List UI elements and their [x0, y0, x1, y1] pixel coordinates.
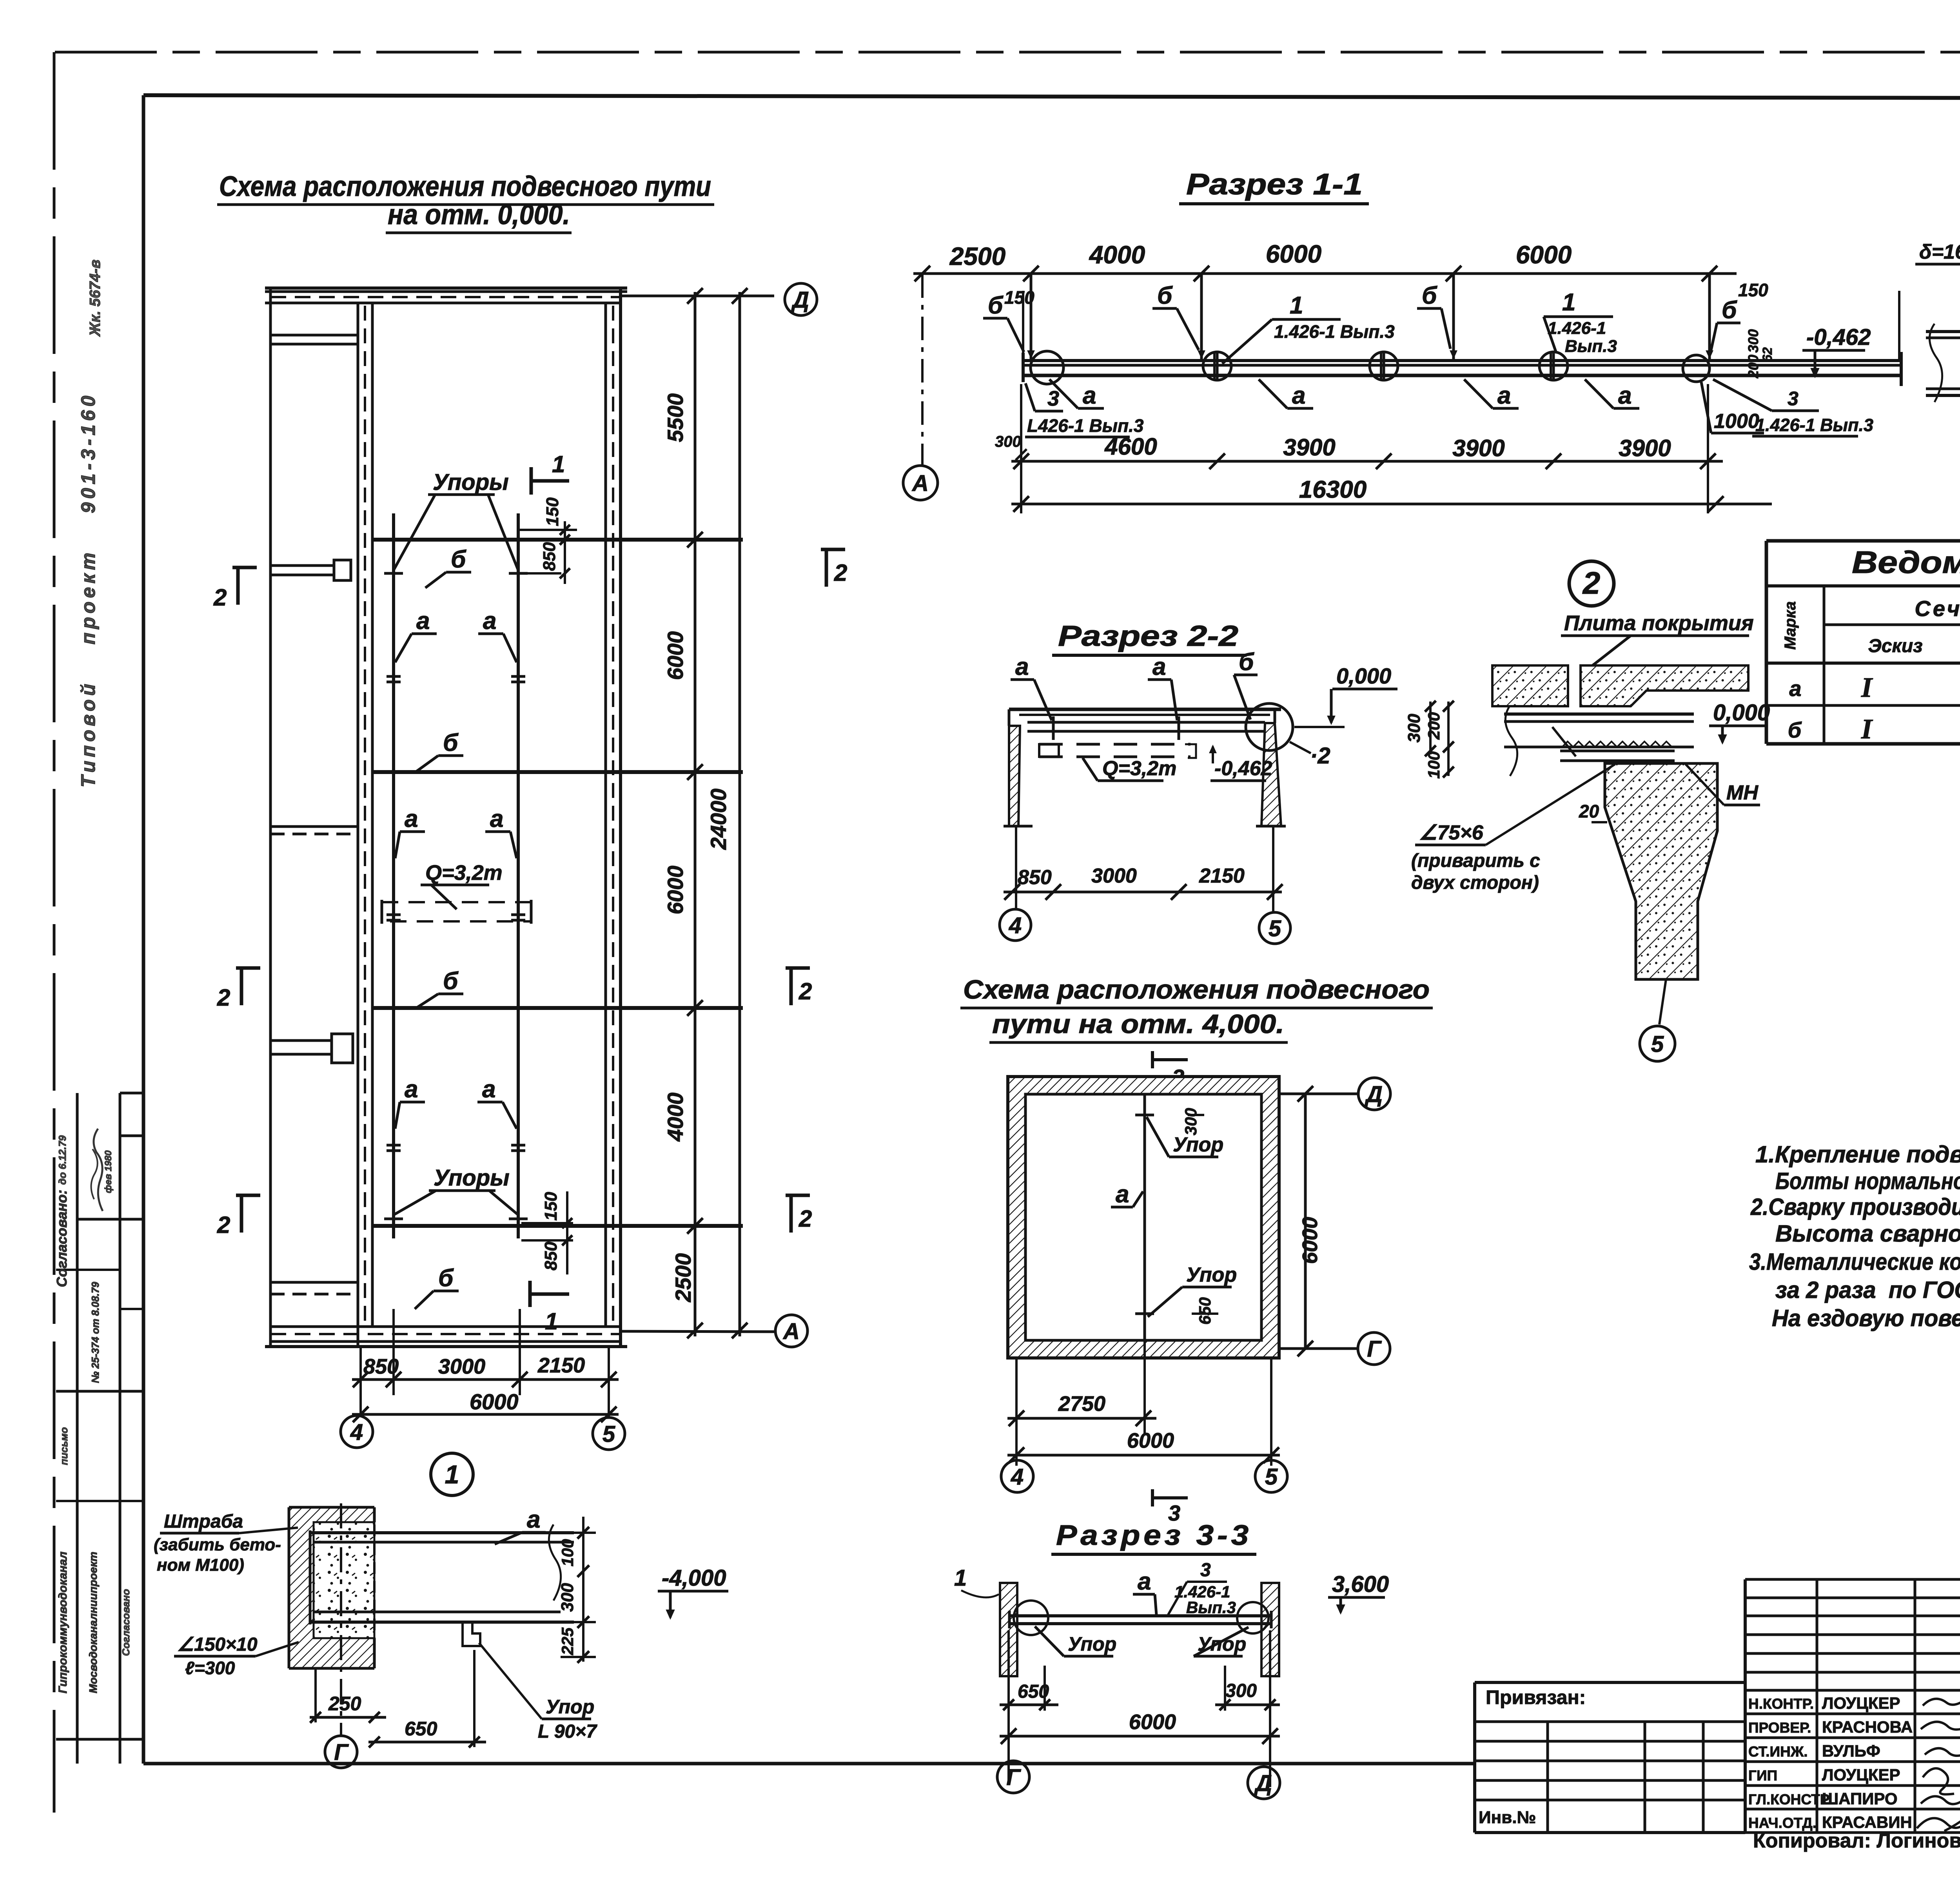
svg-text:Г: Г: [1367, 1336, 1382, 1362]
svg-text:1: 1: [545, 1308, 558, 1334]
svg-text:а: а: [1292, 382, 1305, 409]
svg-text:б: б: [1239, 649, 1254, 676]
svg-text:а: а: [1083, 382, 1096, 409]
svg-text:Н.КОНТР.: Н.КОНТР.: [1748, 1696, 1814, 1712]
svg-text:Копировал: Логинова: Копировал: Логинова: [1753, 1829, 1960, 1852]
svg-text:100: 100: [1425, 751, 1443, 779]
svg-text:2750: 2750: [1058, 1392, 1105, 1416]
svg-text:850: 850: [363, 1355, 399, 1378]
svg-text:Согласовано:: Согласовано:: [54, 1190, 70, 1287]
svg-text:Д: Д: [1364, 1082, 1383, 1107]
svg-text:-0,462: -0,462: [1214, 757, 1272, 780]
svg-text:На ездовую поверхность краска: На ездовую поверхность краска не наносит…: [1772, 1305, 1960, 1331]
svg-text:а: а: [1618, 382, 1632, 409]
svg-text:4000: 4000: [1089, 241, 1145, 269]
svg-text:1.426-1 Вып.3: 1.426-1 Вып.3: [1755, 415, 1873, 435]
svg-text:5: 5: [1265, 1464, 1278, 1490]
svg-text:1: 1: [1290, 292, 1303, 319]
svg-text:200: 200: [1745, 355, 1761, 379]
svg-text:∠150×10: ∠150×10: [177, 1634, 258, 1655]
svg-text:СТ.ИНЖ.: СТ.ИНЖ.: [1748, 1744, 1808, 1760]
svg-text:∠75×6: ∠75×6: [1419, 821, 1484, 844]
svg-text:письмо: письмо: [58, 1427, 70, 1465]
svg-text:150: 150: [541, 1192, 561, 1221]
svg-text:а: а: [416, 607, 430, 634]
svg-text:А: А: [911, 471, 929, 496]
svg-text:150: 150: [1004, 287, 1034, 308]
svg-text:Д: Д: [791, 287, 809, 313]
svg-text:4: 4: [1011, 1464, 1024, 1490]
svg-text:2: 2: [799, 978, 812, 1004]
svg-text:100: 100: [558, 1539, 577, 1566]
svg-text:6000: 6000: [1266, 240, 1321, 268]
svg-text:Сечение: Сечение: [1915, 596, 1960, 621]
svg-text:а: а: [1015, 653, 1029, 680]
svg-text:до 6.12.79: до 6.12.79: [56, 1135, 68, 1185]
svg-text:1: 1: [445, 1460, 459, 1489]
svg-text:650: 650: [1196, 1297, 1214, 1325]
svg-text:300: 300: [558, 1583, 577, 1612]
svg-text:б: б: [443, 729, 459, 756]
svg-text:I: I: [1861, 672, 1873, 703]
svg-text:Мосводоканалниипроект: Мосводоканалниипроект: [87, 1552, 99, 1693]
svg-text:2: 2: [799, 1206, 812, 1232]
svg-text:Упор: Упор: [1068, 1633, 1116, 1655]
svg-text:300: 300: [1745, 329, 1761, 353]
svg-text:ГЛ.КОНСТР: ГЛ.КОНСТР: [1748, 1791, 1829, 1807]
svg-text:6000: 6000: [663, 631, 688, 680]
svg-text:650: 650: [1018, 1681, 1049, 1702]
svg-text:1.426-1: 1.426-1: [1548, 319, 1606, 338]
svg-text:Q=3,2т: Q=3,2т: [1102, 757, 1176, 780]
svg-text:3: 3: [1047, 387, 1059, 410]
svg-text:а: а: [483, 607, 496, 634]
svg-text:Разрез 1-1: Разрез 1-1: [1186, 168, 1363, 201]
svg-text:а: а: [1116, 1181, 1129, 1208]
svg-text:а: а: [1497, 382, 1511, 409]
svg-text:6000: 6000: [1127, 1429, 1174, 1452]
svg-text:2: 2: [217, 1212, 230, 1238]
svg-text:300: 300: [1225, 1680, 1257, 1701]
svg-text:б: б: [1788, 718, 1802, 742]
svg-text:2500: 2500: [949, 242, 1005, 270]
svg-text:24000: 24000: [706, 789, 731, 850]
svg-text:I: I: [1861, 713, 1873, 745]
svg-text:фев 1980: фев 1980: [103, 1150, 114, 1193]
svg-text:1000: 1000: [1714, 410, 1759, 433]
svg-text:МН: МН: [1726, 781, 1759, 804]
svg-text:·2: ·2: [1310, 743, 1330, 769]
svg-text:3,600: 3,600: [1332, 1572, 1389, 1597]
svg-text:3000: 3000: [438, 1355, 485, 1378]
svg-text:6000: 6000: [1129, 1710, 1176, 1734]
svg-text:Разрез 2-2: Разрез 2-2: [1058, 620, 1238, 652]
svg-text:2.Сварку производить электрода: 2.Сварку производить электродами типа Э-…: [1750, 1194, 1960, 1220]
svg-text:а: а: [1138, 1568, 1151, 1595]
svg-text:на отм. 0,000.: на отм. 0,000.: [388, 199, 570, 230]
svg-text:А: А: [782, 1319, 800, 1344]
svg-text:2150: 2150: [1199, 865, 1245, 887]
svg-text:а: а: [1152, 653, 1166, 680]
svg-text:300: 300: [995, 433, 1021, 450]
svg-text:Штраба: Штраба: [164, 1511, 243, 1532]
svg-text:Вып.3: Вып.3: [1565, 337, 1617, 356]
svg-text:Вып.3: Вып.3: [1186, 1598, 1236, 1617]
svg-text:Инв.№: Инв.№: [1479, 1808, 1536, 1827]
svg-text:(забить бето-: (забить бето-: [154, 1535, 281, 1554]
svg-text:ном М100): ном М100): [157, 1555, 244, 1575]
svg-text:-4,000: -4,000: [662, 1565, 726, 1591]
svg-text:Ведомость элементов.: Ведомость элементов.: [1852, 545, 1960, 580]
svg-text:16300: 16300: [1299, 476, 1367, 503]
svg-text:Типовой проект 901-3-160: Типовой проект 901-3-160: [77, 392, 99, 788]
svg-text:6000: 6000: [1516, 241, 1572, 269]
svg-text:НАЧ.ОТД.: НАЧ.ОТД.: [1748, 1815, 1817, 1831]
svg-text:Упор: Упор: [1186, 1264, 1237, 1286]
svg-text:Болты нормальной точности М16: Болты нормальной точности М16 ГОСТ 7798-…: [1775, 1168, 1960, 1194]
svg-text:Упоры: Упоры: [434, 1165, 510, 1191]
svg-text:-0,462: -0,462: [1806, 324, 1871, 350]
svg-text:ВУЛЬФ: ВУЛЬФ: [1822, 1742, 1880, 1760]
svg-text:6000: 6000: [1298, 1217, 1322, 1264]
svg-text:Марка: Марка: [1782, 601, 1799, 650]
svg-text:Разрез 3-3: Разрез 3-3: [1056, 1520, 1252, 1551]
svg-text:1.Крепление подвесных путей к: 1.Крепление подвесных путей к балкам-бол…: [1755, 1141, 1960, 1167]
svg-text:850: 850: [541, 1242, 561, 1271]
svg-text:20: 20: [1579, 801, 1599, 821]
svg-text:3900: 3900: [1619, 435, 1671, 461]
svg-text:4: 4: [1009, 913, 1022, 938]
svg-text:б: б: [988, 292, 1004, 319]
svg-text:3900: 3900: [1452, 435, 1504, 461]
svg-text:150: 150: [543, 497, 562, 526]
svg-text:а: а: [527, 1506, 540, 1533]
svg-text:б: б: [1722, 297, 1737, 324]
svg-text:Гипрокоммунводоканал: Гипрокоммунводоканал: [56, 1552, 69, 1693]
svg-text:62: 62: [1760, 347, 1775, 362]
svg-text:225: 225: [558, 1627, 577, 1655]
svg-text:ПРОВЕР.: ПРОВЕР.: [1748, 1720, 1811, 1736]
svg-text:Схема расположения подвесного: Схема расположения подвесного пути: [219, 171, 711, 202]
svg-text:2500: 2500: [671, 1253, 695, 1303]
svg-text:КРАСНОВА: КРАСНОВА: [1822, 1718, 1913, 1736]
svg-text:б: б: [1422, 282, 1437, 309]
svg-text:2: 2: [1582, 566, 1601, 600]
svg-text:2150: 2150: [537, 1354, 585, 1377]
svg-text:5500: 5500: [663, 393, 688, 442]
svg-text:ШАПИРО: ШАПИРО: [1822, 1789, 1898, 1808]
svg-text:Согласовано: Согласовано: [120, 1589, 132, 1656]
svg-text:300: 300: [1405, 714, 1424, 743]
svg-text:1.426-1 Вып.3: 1.426-1 Вып.3: [1274, 321, 1395, 342]
svg-text:5: 5: [603, 1421, 615, 1447]
svg-text:2: 2: [213, 584, 227, 611]
svg-text:2: 2: [834, 560, 847, 586]
svg-text:Д: Д: [1254, 1771, 1272, 1796]
svg-text:Г: Г: [1006, 1765, 1021, 1790]
svg-text:№ 25-374 от 8.08.79: № 25-374 от 8.08.79: [89, 1282, 101, 1383]
svg-text:Высота сварного шва hш= 6мм.: Высота сварного шва hш= 6мм.: [1775, 1220, 1960, 1247]
svg-text:а: а: [405, 1076, 418, 1103]
svg-text:ЛОУЦКЕР: ЛОУЦКЕР: [1822, 1694, 1900, 1712]
svg-text:ЛОУЦКЕР: ЛОУЦКЕР: [1822, 1766, 1900, 1784]
svg-text:3900: 3900: [1283, 434, 1335, 460]
svg-text:250: 250: [328, 1693, 361, 1715]
svg-text:Схема расположения подвесного: Схема расположения подвесного: [963, 975, 1430, 1004]
svg-text:6000: 6000: [663, 866, 688, 915]
svg-text:а: а: [482, 1076, 495, 1103]
svg-text:ГИП: ГИП: [1748, 1767, 1777, 1784]
svg-text:КРАСАВИН: КРАСАВИН: [1822, 1813, 1912, 1831]
svg-text:Эскиз: Эскиз: [1868, 636, 1922, 656]
svg-text:Плита покрытия: Плита покрытия: [1564, 611, 1754, 635]
svg-text:б: б: [438, 1265, 454, 1292]
svg-text:а: а: [1789, 676, 1801, 701]
svg-text:(приварить с: (приварить с: [1411, 850, 1540, 871]
svg-text:5: 5: [1269, 916, 1281, 941]
svg-text:Q=3,2т: Q=3,2т: [425, 861, 503, 885]
svg-text:300: 300: [1181, 1108, 1200, 1135]
svg-text:Упор: Упор: [546, 1696, 594, 1718]
svg-text:2: 2: [217, 984, 230, 1011]
svg-text:3.Металлические конструкции по: 3.Металлические конструкции покрасить ма…: [1749, 1249, 1960, 1275]
svg-text:4600: 4600: [1104, 433, 1157, 460]
svg-text:б: б: [443, 968, 459, 995]
svg-text:двух сторон): двух сторон): [1411, 872, 1539, 893]
svg-text:0,000: 0,000: [1713, 700, 1770, 725]
svg-text:Привязан:: Привязан:: [1486, 1686, 1586, 1708]
svg-text:4: 4: [350, 1419, 363, 1445]
svg-text:Упоры: Упоры: [433, 470, 509, 495]
svg-text:5: 5: [1651, 1031, 1664, 1057]
svg-text:пути на отм. 4,000.: пути на отм. 4,000.: [992, 1009, 1284, 1039]
svg-text:1: 1: [1562, 289, 1575, 316]
svg-text:4000: 4000: [663, 1093, 688, 1142]
svg-text:1: 1: [954, 1565, 967, 1591]
svg-text:850: 850: [540, 542, 559, 571]
svg-text:650: 650: [405, 1718, 437, 1740]
svg-text:за 2 раза по ГОСТ 695-77.: за 2 раза по ГОСТ 695-77.: [1775, 1277, 1960, 1303]
svg-text:δ=16: δ=16: [1919, 241, 1960, 263]
svg-text:200: 200: [1425, 712, 1443, 740]
svg-text:6000: 6000: [470, 1389, 519, 1414]
svg-text:Жк. 5674-в: Жк. 5674-в: [87, 259, 103, 337]
svg-text:L426-1 Вып.3: L426-1 Вып.3: [1027, 415, 1144, 436]
svg-text:б: б: [1157, 282, 1173, 309]
svg-text:1: 1: [552, 451, 565, 477]
svg-text:а: а: [405, 805, 418, 832]
svg-text:3: 3: [1788, 388, 1798, 410]
svg-text:а: а: [490, 805, 503, 832]
svg-text:L 90×7: L 90×7: [538, 1721, 597, 1742]
svg-text:0,000: 0,000: [1336, 663, 1391, 688]
svg-text:150: 150: [1738, 280, 1768, 300]
svg-text:ℓ=300: ℓ=300: [185, 1658, 235, 1678]
svg-text:3: 3: [1200, 1560, 1211, 1581]
svg-text:б: б: [451, 546, 466, 573]
svg-text:Г: Г: [334, 1740, 349, 1765]
svg-text:3000: 3000: [1091, 865, 1137, 887]
svg-text:Упор: Упор: [1173, 1133, 1223, 1156]
svg-text:850: 850: [1018, 866, 1052, 889]
